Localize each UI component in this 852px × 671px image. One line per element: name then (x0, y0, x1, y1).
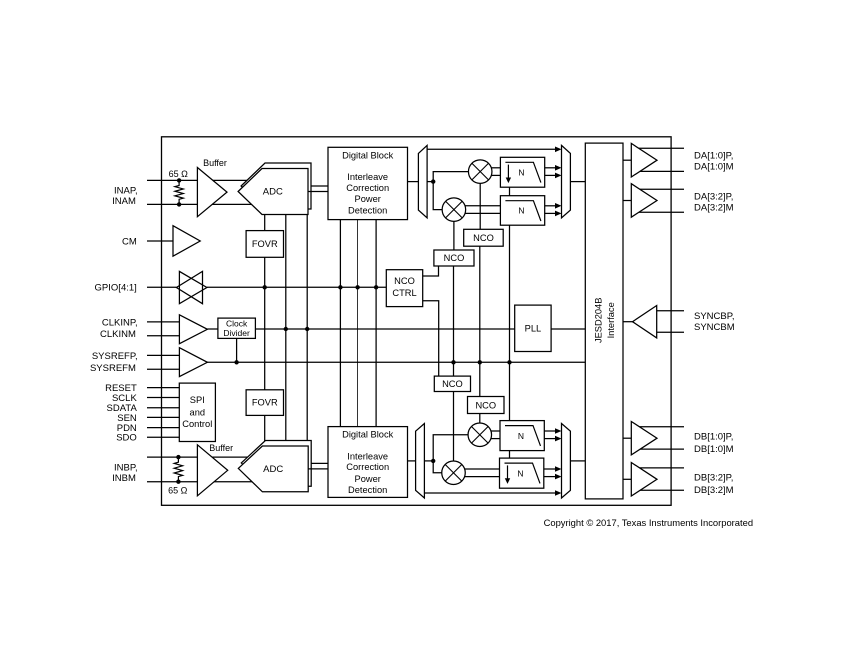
svg-text:Digital Block: Digital Block (342, 430, 394, 440)
NCO A2 box (434, 250, 474, 266)
outer boundary box (162, 137, 672, 506)
mixer M2 (442, 198, 466, 222)
svg-text:DB[3:2]M: DB[3:2]M (694, 485, 734, 496)
wire INAM (147, 203, 254, 205)
FOVR box (top) (246, 231, 283, 258)
wire N1 out Q (545, 174, 556, 176)
junction sysref-NCO bus 2 (478, 360, 482, 364)
svg-text:JESD204B: JESD204B (594, 298, 604, 343)
svg-text:ADC: ADC (263, 187, 283, 198)
junction demux A (431, 179, 435, 183)
svg-text:DB[1:0]P,: DB[1:0]P, (694, 431, 733, 442)
wire clock divider to SYSREF net (236, 338, 238, 362)
wire M4 to N4 (I) (465, 468, 500, 470)
svg-text:Copyright © 2017, Texas Instru: Copyright © 2017, Texas Instruments Inco… (544, 517, 753, 528)
wire demux A to mixers (427, 181, 433, 183)
wire CLKINP (147, 321, 179, 323)
decimation filter N3 (500, 421, 544, 451)
svg-text:NCO: NCO (475, 400, 496, 410)
wire NCO CTRL to NCO A2 (423, 266, 439, 276)
wire N2 out I (545, 205, 556, 207)
wire N1 out I (545, 167, 556, 169)
wire to mixer M2 (433, 182, 442, 210)
pin label DB[3:2]P, DB[3:2]M (694, 472, 734, 496)
svg-text:ADC: ADC (263, 464, 283, 475)
svg-text:DB[1:0]M: DB[1:0]M (694, 444, 734, 455)
svg-text:SYNCBP,: SYNCBP, (694, 311, 734, 322)
svg-text:Power: Power (355, 194, 381, 204)
wire NCO A2 bus down to NCO B1 (453, 266, 455, 376)
pin label INAP INAM (112, 185, 137, 207)
mixer M4 (442, 461, 466, 485)
junction sysref-N bus (507, 360, 511, 364)
svg-text:SPI: SPI (190, 395, 205, 405)
wire SEN (147, 416, 179, 418)
JESD204B interface block (585, 143, 623, 499)
svg-text:Interleave: Interleave (347, 172, 388, 182)
wire DA32 M (636, 211, 684, 213)
svg-text:SYSREFM: SYSREFM (90, 363, 136, 374)
wire INBP (147, 456, 251, 458)
svg-text:Control: Control (182, 419, 212, 429)
decimation filter N2 (500, 196, 544, 226)
wire N2 out Q (545, 212, 556, 214)
wire bypass bottom (424, 492, 555, 494)
junction sysref-NCO bus 1 (451, 360, 455, 364)
junction demux B (431, 459, 435, 463)
wire DB10 M (636, 448, 684, 450)
wire M2 to N2 (I) (465, 205, 501, 207)
buffer amp (bottom input) (197, 445, 227, 496)
svg-text:NCO: NCO (473, 233, 494, 243)
pin label SYSREFP SYSREFM (90, 351, 138, 374)
wire digital block bus 1 (339, 220, 341, 427)
clock divider box (218, 318, 256, 338)
wire CLKINM (147, 335, 179, 337)
wire ADC A to FOVR top (264, 215, 266, 231)
buffer CM (173, 226, 200, 257)
svg-text:SYNCBM: SYNCBM (694, 322, 735, 333)
mixer M1 (468, 160, 492, 184)
wire DB10 P (636, 426, 684, 428)
wire digital block A to demux (408, 181, 419, 183)
wire SYSREFM (147, 368, 179, 370)
wire JESD204B to DB10 buffer (623, 437, 631, 439)
svg-text:Buffer: Buffer (209, 443, 233, 453)
svg-text:N: N (518, 167, 524, 177)
buffer clock (179, 315, 207, 344)
wire SDATA (147, 407, 179, 409)
wire to mixer M1 (433, 172, 468, 182)
svg-text:SYSREFP,: SYSREFP, (92, 351, 138, 362)
svg-text:INAP,: INAP, (114, 185, 138, 196)
wire NCO CTRL to NCO B1 (423, 301, 439, 376)
buffer amp (top input) (197, 168, 227, 217)
svg-text:Interleave: Interleave (347, 451, 388, 461)
svg-text:N: N (518, 431, 524, 441)
FOVR box (bottom) (246, 390, 283, 416)
wire N1 to N2 (509, 187, 511, 196)
ADC A back outline (241, 163, 311, 209)
NCO A1 box (464, 229, 504, 246)
svg-text:NCO: NCO (394, 276, 415, 286)
mux A (562, 145, 571, 218)
wire GPIO to NCO CTRL (207, 286, 386, 288)
wire DA10 P (636, 147, 684, 149)
pin label DA[1:0]P, DA[1:0]M (694, 150, 734, 172)
svg-text:Interface: Interface (606, 302, 616, 338)
demux A (418, 145, 427, 218)
svg-text:FOVR: FOVR (252, 239, 278, 249)
pin label SYNCBP SYNCBM (694, 311, 735, 333)
resistor 65 ohm (bottom) (174, 455, 182, 484)
input buffer SYNCB (633, 306, 657, 338)
svg-text:Divider: Divider (223, 328, 250, 338)
wire clock buffer to divider (207, 328, 218, 330)
wire mux B to JESD204B (570, 460, 585, 462)
wire INAP (147, 179, 251, 181)
junction clock-ADC bus 1 (284, 327, 288, 331)
demux B (416, 424, 425, 499)
svg-text:DA[1:0]M: DA[1:0]M (694, 161, 734, 172)
wire N3 to N4 (509, 451, 511, 459)
svg-text:Detection: Detection (348, 485, 387, 495)
wire digital block bus 2 (357, 220, 359, 427)
wire M1 to NCO A1 (479, 183, 481, 229)
digital block B (328, 427, 408, 498)
wire M1 to N1 (Q) (491, 174, 500, 176)
junction GPIO-dig bus 1 (338, 285, 342, 289)
wire mux A to JESD204B (570, 181, 585, 183)
wire NCO B2 to mixer M3 (479, 414, 481, 424)
pin label CLKINP CLKINM (100, 317, 138, 340)
pin label DA[3:2]P, DA[3:2]M (694, 192, 734, 214)
svg-text:PLL: PLL (525, 324, 542, 334)
wire INBM (147, 481, 254, 483)
GPIO bidirectional buffer (176, 271, 207, 303)
wire SYSREFP (147, 354, 179, 356)
wire to mixer M3 (433, 435, 468, 461)
svg-text:DA[3:2]M: DA[3:2]M (694, 203, 734, 214)
junction GPIO-dig bus 3 (374, 285, 378, 289)
SPI and Control box (179, 383, 215, 441)
wire DB32 M (636, 489, 684, 491)
junction clock-ADC bus 2 (305, 327, 309, 331)
wire M3 to N3 (I) (491, 430, 500, 432)
svg-text:NCO: NCO (444, 253, 465, 263)
wire SYNCB to JESD204B (623, 321, 633, 323)
svg-text:CLKINM: CLKINM (100, 329, 136, 340)
svg-text:INBP,: INBP, (114, 462, 138, 473)
wire DB32 P (636, 467, 684, 469)
wire SCLK (147, 397, 179, 399)
wire M1 to N1 (I) (491, 167, 500, 169)
svg-text:FOVR: FOVR (252, 398, 278, 408)
wire N bus down (509, 225, 511, 420)
wire CM (147, 240, 173, 242)
wire clock divider to PLL (255, 328, 514, 330)
wire ADC A back to digital block (311, 185, 328, 187)
svg-text:Buffer: Buffer (203, 158, 227, 168)
wire DA10 M (636, 170, 684, 172)
wire N3 out I (544, 430, 555, 432)
mux B (562, 424, 571, 499)
wire digital block bus 3 (375, 220, 377, 427)
ADC B front outline (238, 446, 308, 492)
output buffer DA10 (631, 143, 657, 177)
wire PDN (147, 427, 179, 429)
svg-text:65 Ω: 65 Ω (168, 485, 188, 495)
svg-text:65 Ω: 65 Ω (169, 169, 189, 179)
decimation filter N1 (500, 157, 544, 187)
svg-text:Digital Block: Digital Block (342, 150, 394, 160)
wire N3 out Q (544, 438, 555, 440)
wire DA32 P (636, 188, 684, 190)
wire digital block B to demux (408, 460, 416, 462)
svg-text:N: N (518, 206, 524, 216)
wire demux B to mixers (424, 460, 433, 462)
wire M2 to NCO A2 (453, 221, 455, 250)
svg-text:CTRL: CTRL (392, 288, 416, 298)
wire M3 to N3 (Q) (491, 438, 500, 440)
svg-text:Correction: Correction (346, 183, 389, 193)
pin label INBP INBM (112, 462, 137, 484)
wire NCO B1 to mixer M4 (453, 392, 455, 462)
wire JESD204B to DB32 buffer (623, 478, 631, 480)
PLL box (515, 305, 551, 351)
wire ADC B front to digital block (308, 468, 328, 470)
wire ADC A to ADC B bus 2 (306, 215, 308, 442)
svg-text:CM: CM (122, 236, 137, 247)
wire SYNCBM (657, 331, 684, 333)
NCO B2 box (468, 397, 505, 414)
wire JESD204B to DA10 buffer (623, 159, 631, 161)
ADC A front outline (238, 169, 308, 215)
svg-text:Correction: Correction (346, 462, 389, 472)
output buffer DA32 (631, 184, 657, 218)
svg-text:and: and (190, 408, 206, 418)
wire M2 to N2 (Q) (465, 212, 501, 214)
wire M4 to N4 (Q) (465, 476, 500, 478)
mixer M3 (468, 423, 492, 447)
decimation filter N4 (500, 458, 544, 488)
junction GPIO-FOVR bus (263, 285, 267, 289)
digital block A (328, 147, 408, 219)
wire RESET (147, 387, 179, 389)
NCO B1 box (434, 376, 470, 391)
svg-text:DA[1:0]P,: DA[1:0]P, (694, 150, 733, 161)
wire SYNCBP (657, 310, 684, 312)
pin label DB[1:0]P, DB[1:0]M (694, 431, 734, 455)
wire ADC A to ADC B bus 1 (285, 215, 287, 442)
output buffer DB32 (631, 463, 657, 497)
wire N4 out Q (544, 476, 556, 478)
svg-text:NCO: NCO (442, 379, 463, 389)
svg-text:INBM: INBM (112, 473, 136, 484)
wire ADC B back to digital block (311, 462, 328, 464)
wire SDO (147, 436, 179, 438)
svg-text:Power: Power (355, 474, 381, 484)
svg-text:DA[3:2]P,: DA[3:2]P, (694, 192, 733, 203)
wire FOVR bottom to ADC B (264, 415, 266, 446)
wire FOVR top to FOVR bottom (264, 257, 266, 390)
wire JESD204B to DA32 buffer (623, 200, 631, 202)
ADC B back outline (241, 441, 311, 487)
wire NCO A1 bus down to NCO B2 (479, 246, 481, 396)
svg-text:DB[3:2]P,: DB[3:2]P, (694, 472, 733, 483)
output buffer DB10 (631, 422, 657, 455)
junction GPIO-dig bus 2 (355, 285, 359, 289)
wire PLL to JESD204B (551, 328, 585, 330)
NCO CTRL box (386, 270, 422, 307)
wire N4 out I (544, 468, 556, 470)
svg-text:INAM: INAM (112, 196, 136, 207)
wire ADC A front to digital block (308, 191, 328, 193)
wire to mixer M4 (433, 461, 442, 473)
svg-text:Detection: Detection (348, 206, 387, 216)
svg-text:GPIO[4:1]: GPIO[4:1] (95, 283, 137, 294)
buffer sysref (179, 348, 207, 377)
svg-text:N: N (517, 468, 523, 478)
wire SYSREF to JESD204B (207, 361, 585, 363)
wire bypass top (427, 148, 555, 150)
wire GPIO left (147, 286, 176, 288)
resistor 65 ohm (top) (175, 178, 183, 206)
svg-text:CLKINP,: CLKINP, (102, 317, 138, 328)
junction sysref-clockdiv (234, 360, 238, 364)
svg-text:SDO: SDO (116, 433, 137, 444)
